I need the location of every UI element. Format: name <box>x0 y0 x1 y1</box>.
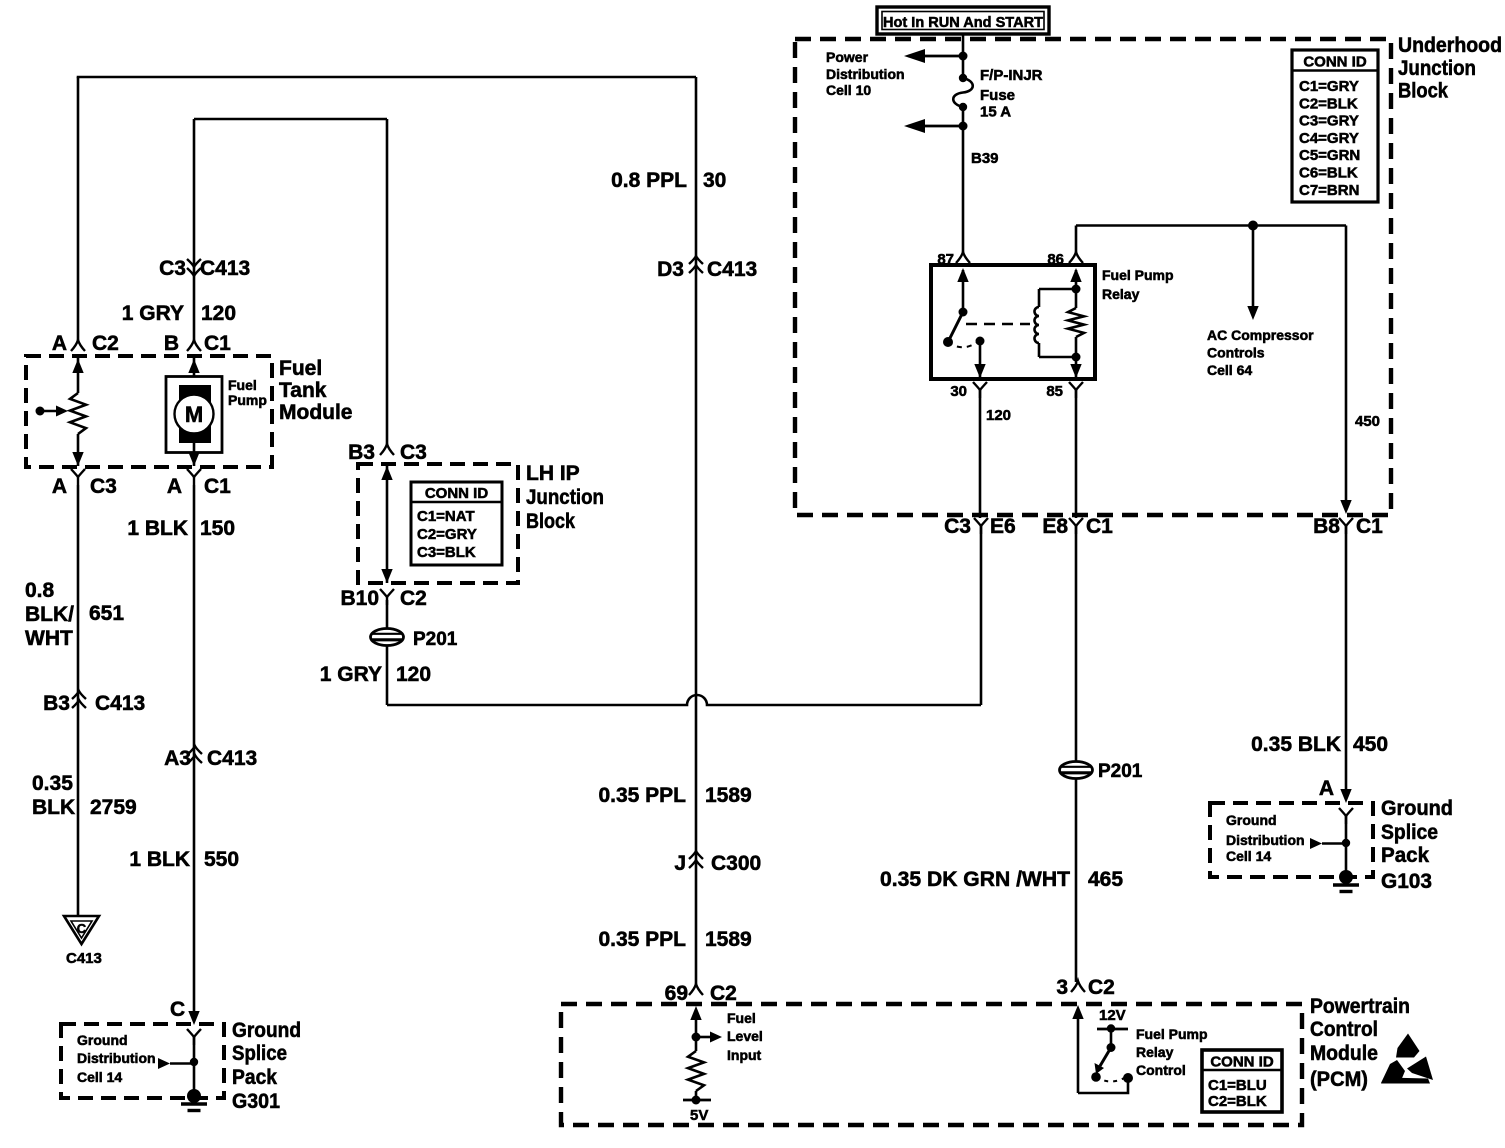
svg-text:Relay: Relay <box>1102 286 1140 302</box>
svg-text:C1: C1 <box>204 332 231 355</box>
node A C1 - module bottom pump connector <box>167 469 231 498</box>
node B3 C3 - LH IP JB top connector <box>348 441 427 464</box>
label - 1 GRY 120 wire label (lower) <box>320 663 431 686</box>
svg-text:C4=GRY: C4=GRY <box>1299 130 1359 147</box>
node B10 C2 - LH IP JB bottom connector <box>340 587 426 610</box>
svg-text:120: 120 <box>201 302 236 325</box>
svg-text:Ground: Ground <box>77 1032 128 1048</box>
node 85 - relay pin 85 <box>1046 382 1083 400</box>
svg-text:C2=BLK: C2=BLK <box>1208 1093 1267 1110</box>
svg-text:Power: Power <box>826 49 869 65</box>
svg-text:B10: B10 <box>340 587 379 610</box>
wire - relay 85 down to E8 C1 <box>1075 390 1078 518</box>
svg-text:Control: Control <box>1310 1018 1378 1041</box>
wire - LH IP junction block feed x=387 <box>386 119 389 445</box>
ground splice pack G103 dashed box <box>1210 803 1373 877</box>
hot in run and start box <box>877 7 1049 34</box>
relay pin 85 internal with down arrow <box>1070 357 1081 378</box>
node B8 C1 - UJB bottom connector <box>1313 515 1383 538</box>
svg-text:Fuel: Fuel <box>228 377 257 393</box>
label - 0.35 BLK 2759 wire label <box>32 772 137 819</box>
label - Ground Splice Pack G103 <box>1381 797 1453 893</box>
svg-text:Input: Input <box>727 1047 762 1063</box>
svg-text:Block: Block <box>526 510 575 533</box>
ESD sensitivity symbol <box>1381 1034 1433 1084</box>
label - Fuel Pump (inside module) <box>228 377 267 408</box>
wire - G301 internal splice <box>158 1029 201 1092</box>
CONN ID table - underhood junction block <box>1292 50 1378 202</box>
svg-text:1589: 1589 <box>705 928 752 951</box>
wire - B39 fuse output to relay 87 <box>962 126 965 253</box>
svg-text:C413: C413 <box>707 258 757 281</box>
label - 0.8 BLK/WHT 651 wire label <box>25 579 124 650</box>
node A C3 - module bottom connector <box>52 469 117 498</box>
svg-text:C2=GRY: C2=GRY <box>417 526 477 543</box>
svg-text:C300: C300 <box>711 852 761 875</box>
svg-text:Distribution: Distribution <box>77 1050 156 1066</box>
svg-text:C3: C3 <box>944 515 971 538</box>
svg-text:P201: P201 <box>1098 761 1143 782</box>
node 87 - relay pin 87 <box>937 251 970 268</box>
svg-text:C2: C2 <box>92 332 119 355</box>
svg-text:1 BLK: 1 BLK <box>127 517 188 540</box>
label - 450 circuit <box>1355 413 1380 430</box>
wire - top horizontal from fuel level sender to 0.8 PPL drop <box>77 76 696 79</box>
wire - B8 branch vertical 450 <box>1340 226 1351 515</box>
svg-text:Ground: Ground <box>1226 812 1277 828</box>
svg-text:C2=BLK: C2=BLK <box>1299 95 1358 112</box>
svg-text:69: 69 <box>665 982 688 1005</box>
wire - 1 BLK 150/550 ground wire down to G301 <box>193 485 196 1011</box>
wire - through LH IP JB with arrows <box>381 464 392 583</box>
wire - fuel level input inside PCM <box>690 1006 722 1051</box>
connector D3 C413 inline <box>657 256 757 281</box>
svg-text:Cell 14: Cell 14 <box>1226 848 1271 864</box>
relay pin 30 internal with down arrow <box>974 341 985 378</box>
svg-text:C3: C3 <box>90 475 117 498</box>
relay switch arm <box>943 308 968 348</box>
wire - fuel pump feed vertical x=194 <box>193 119 196 341</box>
svg-text:B8: B8 <box>1313 515 1340 538</box>
svg-text:651: 651 <box>89 602 124 625</box>
label - Underhood Junction Block <box>1398 34 1502 103</box>
label - Ground Splice Pack G301 <box>232 1019 301 1113</box>
svg-text:Cell 10: Cell 10 <box>826 82 871 98</box>
svg-text:1589: 1589 <box>705 784 752 807</box>
CONN ID table - PCM <box>1202 1050 1282 1112</box>
label - 120 circuit below pin 30 <box>986 407 1011 424</box>
svg-text:Distribution: Distribution <box>826 66 905 82</box>
resistor - fuel level sender element <box>70 393 86 434</box>
node 30 - relay pin 30 <box>950 382 987 400</box>
svg-text:C3: C3 <box>400 441 427 464</box>
svg-text:Junction: Junction <box>1398 57 1476 80</box>
svg-text:15 A: 15 A <box>980 104 1011 121</box>
svg-text:C2: C2 <box>710 982 737 1005</box>
svg-text:BLK: BLK <box>32 796 75 819</box>
wire - vertical up to C3 E6 <box>980 526 983 705</box>
arrow - AC compressor controls branch <box>1247 226 1258 321</box>
connector A3 C413 inline <box>164 746 257 770</box>
relay switch common from 87 <box>957 268 968 313</box>
label - 0.35 DK GRN /WHT 465 wire label <box>880 868 1123 891</box>
svg-text:C413: C413 <box>95 692 145 715</box>
svg-text:P201: P201 <box>413 629 458 650</box>
svg-text:(PCM): (PCM) <box>1310 1068 1368 1091</box>
svg-text:C1=NAT: C1=NAT <box>417 508 475 525</box>
svg-text:1 GRY: 1 GRY <box>122 302 184 325</box>
label - Power Distribution Cell 10 <box>826 49 905 98</box>
svg-text:B3: B3 <box>43 692 70 715</box>
svg-text:Ground: Ground <box>1381 797 1453 820</box>
svg-text:0.8: 0.8 <box>25 579 55 602</box>
svg-text:C5=GRN: C5=GRN <box>1299 147 1360 164</box>
label - Fuel Pump Relay <box>1102 267 1174 302</box>
wire - relay 30 down to C3 E6 <box>979 390 982 518</box>
label - Powertrain Control Module (PCM) <box>1310 995 1410 1091</box>
switch - fuel pump relay control 12V <box>1091 1007 1128 1082</box>
svg-text:Fuel Pump: Fuel Pump <box>1102 267 1174 283</box>
wire - top rail to AC compressor and B8 <box>1076 224 1346 227</box>
svg-text:Fuel: Fuel <box>727 1010 756 1026</box>
label - Fuel Tank Module <box>279 357 353 424</box>
svg-text:0.35 PPL: 0.35 PPL <box>598 784 686 807</box>
svg-text:B3: B3 <box>348 441 375 464</box>
svg-text:C1: C1 <box>1356 515 1383 538</box>
svg-text:Fuel: Fuel <box>279 357 322 380</box>
svg-text:550: 550 <box>204 848 239 871</box>
svg-text:Pump: Pump <box>228 392 267 408</box>
wire - sender element to module bottom with down arrow <box>72 434 83 466</box>
powertrain control module dashed box <box>561 1004 1302 1125</box>
svg-text:C7=BRN: C7=BRN <box>1299 182 1359 199</box>
underhood junction block dashed box <box>795 39 1391 515</box>
svg-text:C1=GRY: C1=GRY <box>1299 78 1359 95</box>
svg-text:120: 120 <box>396 663 431 686</box>
svg-text:465: 465 <box>1088 868 1123 891</box>
svg-text:A: A <box>167 475 182 498</box>
svg-text:30: 30 <box>950 383 967 400</box>
connector C3 C413 inline on pump feed <box>159 257 250 280</box>
label - 0.8 PPL 30 wire label <box>611 169 726 192</box>
svg-text:Ground: Ground <box>232 1019 301 1042</box>
svg-text:Hot In RUN And START: Hot In RUN And START <box>883 14 1043 31</box>
node E8 C1 - UJB bottom connector <box>1042 515 1113 538</box>
svg-text:CONN ID: CONN ID <box>1303 54 1367 71</box>
svg-text:Level: Level <box>727 1028 763 1044</box>
wire - fuel pump relay control driver inside PCM <box>1072 1005 1133 1093</box>
fuel pump motor M <box>166 377 222 453</box>
label - 1 BLK 150 wire label <box>127 517 235 540</box>
svg-text:A3: A3 <box>164 747 191 770</box>
svg-text:Powertrain: Powertrain <box>1310 995 1410 1018</box>
svg-text:Module: Module <box>279 401 353 424</box>
wire - pump to module bottom with down arrow <box>188 443 199 466</box>
svg-text:C1: C1 <box>204 475 231 498</box>
node A C2 - fuel tank module sender connector <box>52 332 119 355</box>
wire - sender wire inside module with up arrow <box>72 358 83 393</box>
svg-text:E8: E8 <box>1042 515 1068 538</box>
label - B39 <box>971 150 999 167</box>
connector B3 C413 inline <box>43 691 145 715</box>
label - 0.35 BLK 450 wire label <box>1251 733 1388 756</box>
relay coil branch <box>1035 289 1077 357</box>
node - junction to AC compressor controls <box>1248 221 1258 231</box>
svg-text:AC Compressor: AC Compressor <box>1207 327 1314 343</box>
svg-text:CONN ID: CONN ID <box>1210 1054 1274 1071</box>
svg-text:C6=BLK: C6=BLK <box>1299 165 1358 182</box>
fuel pump relay box <box>931 265 1095 379</box>
svg-text:C2: C2 <box>1088 976 1115 999</box>
svg-text:30: 30 <box>703 169 726 192</box>
connector C413 triangle termination <box>64 916 102 967</box>
wire - second vertical top horizontal (193-387) <box>194 118 387 121</box>
label - Fuel Pump Relay Control <box>1136 1026 1208 1078</box>
svg-text:B: B <box>164 332 179 355</box>
svg-text:A: A <box>52 332 67 355</box>
svg-text:Underhood: Underhood <box>1398 34 1502 57</box>
svg-text:E6: E6 <box>990 515 1016 538</box>
label - Ground Distribution Cell 14 (G103) <box>1226 812 1305 864</box>
svg-text:5V: 5V <box>690 1107 708 1124</box>
svg-text:C413: C413 <box>207 747 257 770</box>
svg-text:Tank: Tank <box>279 379 327 402</box>
svg-text:Relay: Relay <box>1136 1044 1174 1060</box>
wire - 86 to top rail <box>1075 226 1078 254</box>
svg-text:0.35: 0.35 <box>32 772 73 795</box>
svg-text:J: J <box>674 852 686 875</box>
svg-text:0.35 PPL: 0.35 PPL <box>598 928 686 951</box>
svg-text:Cell 14: Cell 14 <box>77 1069 122 1085</box>
svg-text:Junction: Junction <box>526 486 604 509</box>
svg-text:A: A <box>52 475 67 498</box>
svg-text:C2: C2 <box>400 587 427 610</box>
wiper arrow - fuel level sender <box>36 406 69 417</box>
svg-text:G301: G301 <box>232 1090 280 1113</box>
node 3 C2 - PCM fuel pump relay control pin <box>1056 976 1115 999</box>
node A - G103 entry <box>1319 777 1334 800</box>
LH IP junction block dashed box <box>358 464 518 583</box>
wire - left sender wire vertical (x=78) top section <box>77 77 80 341</box>
svg-text:Pack: Pack <box>232 1066 277 1089</box>
wire - GRY 120 from C3 E6 handled above; 0.35 BLK 450 to G103 <box>1340 526 1351 803</box>
svg-text:G103: G103 <box>1381 870 1432 893</box>
label - AC Compressor Controls Cell 64 <box>1207 327 1314 378</box>
node 86 - relay pin 86 <box>1047 251 1083 268</box>
CONN ID table - LH IP JB <box>411 482 502 565</box>
svg-text:Distribution: Distribution <box>1226 832 1305 848</box>
connector P201 pass-through (left) <box>371 629 458 651</box>
svg-text:F/P-INJR: F/P-INJR <box>980 67 1043 84</box>
connector J C300 inline <box>674 851 761 875</box>
node 69 C2 - PCM fuel level input pin <box>665 982 737 1005</box>
svg-text:Splice: Splice <box>232 1042 287 1065</box>
svg-text:A: A <box>1319 777 1334 800</box>
label - 1 GRY 120 wire label <box>122 302 236 325</box>
fuse F/P-INJR 15A <box>953 74 973 111</box>
svg-text:LH IP: LH IP <box>526 462 580 485</box>
wire - G103 internal splice <box>1310 808 1353 874</box>
svg-text:0.35 DK GRN /WHT: 0.35 DK GRN /WHT <box>880 868 1070 891</box>
svg-text:1 BLK: 1 BLK <box>129 848 190 871</box>
svg-text:C: C <box>170 998 185 1021</box>
svg-text:C: C <box>77 921 87 936</box>
svg-text:12V: 12V <box>1099 1007 1126 1024</box>
wire - horizontal run to relay pin 30 with hop over PPL wire <box>387 695 981 705</box>
wire - 0.8 PPL 30 fuel level signal vertical x=696 <box>695 77 698 985</box>
svg-text:85: 85 <box>1046 383 1063 400</box>
connector P201 pass-through (right) <box>1060 761 1143 782</box>
node C3 E6 - UJB bottom connector <box>944 515 1016 538</box>
resistor - PCM 5V pull-up <box>688 1051 704 1091</box>
svg-text:450: 450 <box>1353 733 1388 756</box>
svg-text:0.8 PPL: 0.8 PPL <box>611 169 687 192</box>
svg-text:3: 3 <box>1056 976 1068 999</box>
node C - entry to ground splice pack G301 <box>170 998 200 1025</box>
svg-text:Block: Block <box>1398 80 1448 103</box>
svg-text:120: 120 <box>986 407 1011 424</box>
ground symbol G301 <box>181 1089 207 1111</box>
label - 0.35 PPL 1589 wire label (lower) <box>598 928 751 951</box>
svg-text:C413: C413 <box>200 257 250 280</box>
ground splice pack G301 dashed box <box>61 1024 224 1098</box>
arrow - power distribution feed upper <box>904 49 968 63</box>
label - 0.35 PPL 1589 wire label (upper) <box>598 784 751 807</box>
wire - 0.8 BLK/WHT 651 vertical down to C413 triangle <box>77 485 80 916</box>
svg-text:Pack: Pack <box>1381 844 1429 867</box>
svg-text:C3=GRY: C3=GRY <box>1299 113 1359 130</box>
relay mechanical link dashed <box>966 323 1030 326</box>
svg-text:Module: Module <box>1310 1042 1378 1065</box>
node B C1 - module pump connector <box>164 332 231 355</box>
svg-text:Controls: Controls <box>1207 345 1265 361</box>
wire - fuse feed from hot box <box>962 34 965 77</box>
svg-text:M: M <box>185 402 203 427</box>
label - F/P-INJR Fuse 15 A <box>980 67 1043 121</box>
wire - DK GRN/WHT 465 down to PCM <box>1075 778 1078 982</box>
svg-text:C1=BLU: C1=BLU <box>1208 1077 1267 1094</box>
label - Fuel Level Input <box>727 1010 763 1063</box>
wire - P201 down and right to relay 30 (1 GRY 120) <box>386 645 389 705</box>
svg-text:CONN ID: CONN ID <box>425 485 489 502</box>
fuel tank module dashed box <box>26 356 272 467</box>
relay switch throw arc dashed <box>948 337 985 348</box>
label - LH IP Junction Block <box>526 462 604 533</box>
node - 5V reference <box>683 1091 711 1124</box>
relay coil suppression resistor <box>1068 268 1084 362</box>
svg-text:0.35 BLK: 0.35 BLK <box>1251 733 1341 756</box>
svg-text:Fuel Pump: Fuel Pump <box>1136 1026 1208 1042</box>
svg-text:C3=BLK: C3=BLK <box>417 544 476 561</box>
svg-text:WHT: WHT <box>25 627 73 650</box>
svg-text:Splice: Splice <box>1381 821 1438 844</box>
svg-text:150: 150 <box>200 517 235 540</box>
svg-text:BLK/: BLK/ <box>25 603 74 626</box>
svg-text:C1: C1 <box>1086 515 1113 538</box>
label - Ground Distribution Cell 14 (G301) <box>77 1032 156 1085</box>
svg-text:C413: C413 <box>66 950 102 967</box>
svg-text:D3: D3 <box>657 258 684 281</box>
wire - E8 C1 down to P201 right <box>1075 526 1078 762</box>
svg-text:Fuse: Fuse <box>980 87 1015 104</box>
svg-text:450: 450 <box>1355 413 1380 430</box>
svg-text:B39: B39 <box>971 150 999 167</box>
svg-text:Cell 64: Cell 64 <box>1207 362 1252 378</box>
wire - B10 to P201 <box>386 600 389 629</box>
svg-text:C3: C3 <box>159 257 186 280</box>
label - 1 BLK 550 wire label <box>129 848 239 871</box>
ground symbol G103 <box>1333 870 1359 892</box>
wire - pump wire inside module with up arrow <box>188 358 199 377</box>
arrow - power distribution feed lower <box>904 107 968 133</box>
svg-text:1 GRY: 1 GRY <box>320 663 382 686</box>
svg-text:Control: Control <box>1136 1062 1186 1078</box>
svg-text:2759: 2759 <box>90 796 137 819</box>
